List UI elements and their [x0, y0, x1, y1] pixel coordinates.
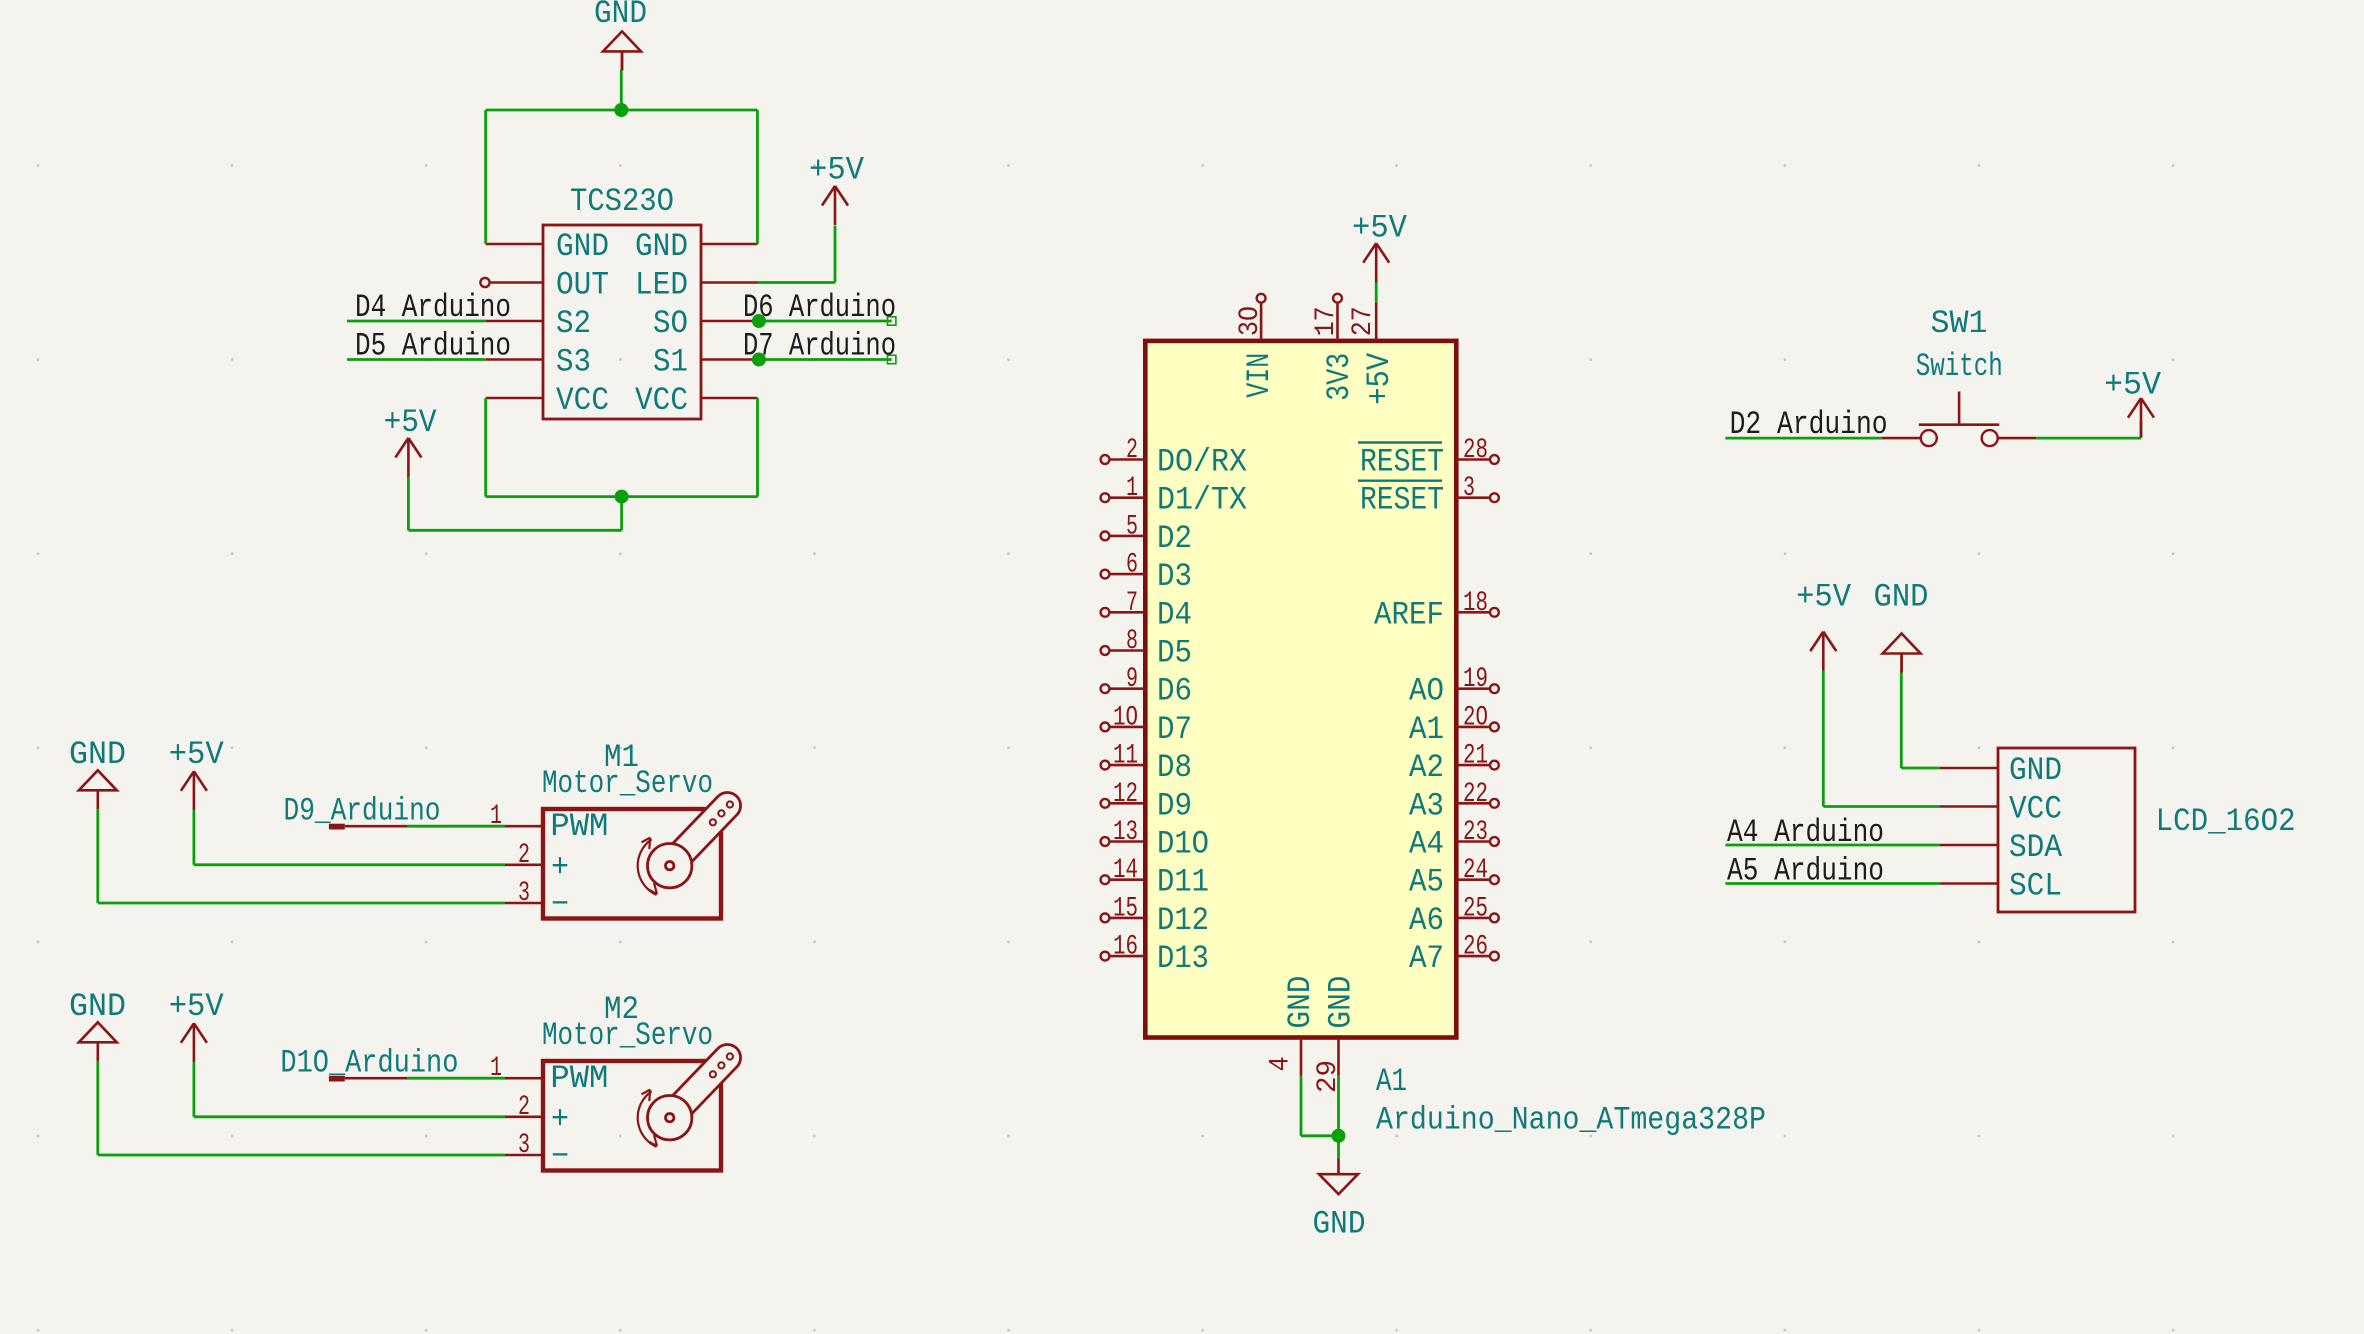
- pin 18 open circle: [1490, 608, 1499, 617]
- power +5V (LED): [822, 186, 848, 225]
- pin 17 3V3 stub: [1336, 303, 1339, 341]
- svg-text:16: 16: [1113, 932, 1138, 963]
- svg-text:3: 3: [518, 1130, 530, 1161]
- pin 13 open circle: [1101, 837, 1110, 846]
- display LCD_1602 body: [1998, 748, 2135, 912]
- svg-text:2: 2: [1126, 435, 1138, 466]
- pin VCC of LCD: [1939, 805, 1998, 808]
- svg-text:17: 17: [1311, 306, 1342, 336]
- pin 30 open circle: [1257, 294, 1266, 303]
- pin 29 GND stub: [1337, 1038, 1340, 1076]
- pin 2 of SW1: [1998, 437, 2036, 440]
- svg-text:3O: 3O: [1235, 306, 1266, 336]
- power +5V (M2): [181, 1023, 207, 1062]
- pin 23 open circle: [1490, 837, 1499, 846]
- pin OUT of TCS230: [490, 281, 544, 284]
- pin LED: [701, 281, 758, 284]
- pin 17 open circle: [1333, 294, 1342, 303]
- svg-text:+5V: +5V: [384, 404, 438, 441]
- svg-text:6: 6: [1126, 550, 1138, 581]
- svg-text:4: 4: [1266, 1056, 1297, 1071]
- svg-text:1O: 1O: [1113, 702, 1138, 733]
- svg-text:D5: D5: [1157, 635, 1192, 672]
- svg-text:D4: D4: [1157, 596, 1192, 633]
- wire D9_Arduino red part: [345, 825, 408, 828]
- pin S2: [486, 320, 543, 323]
- pin 1 (M2) stub: [505, 1077, 543, 1080]
- svg-text:LED: LED: [635, 267, 688, 304]
- svg-text:GND: GND: [1874, 578, 1929, 615]
- wire D9_Arduino green part: [407, 825, 505, 828]
- svg-text:VCC: VCC: [2009, 791, 2062, 828]
- svg-text:14: 14: [1113, 855, 1138, 886]
- pin 21 open circle: [1490, 761, 1499, 770]
- svg-text:VCC: VCC: [556, 382, 609, 419]
- svg-text:A6: A6: [1409, 902, 1444, 939]
- pin 11 D8 stub: [1110, 764, 1146, 767]
- wire GND top horizontal: [486, 109, 758, 112]
- wire VCC to +5V drop: [620, 497, 623, 531]
- pin 9 D6 stub: [1110, 687, 1146, 690]
- pin 6 open circle: [1101, 570, 1110, 579]
- pin 12 open circle: [1101, 799, 1110, 808]
- switch contact left: [1921, 430, 1937, 446]
- svg-text:PWM: PWM: [550, 1060, 608, 1097]
- wire +5V to pin 27: [1375, 281, 1378, 303]
- pin S3: [486, 358, 543, 361]
- pin 8 D5 stub: [1110, 649, 1146, 652]
- svg-text:A5: A5: [1409, 864, 1444, 901]
- pin 5 D2 stub: [1110, 535, 1146, 538]
- power GND (M2): [79, 1022, 117, 1061]
- svg-text:D9: D9: [1157, 787, 1192, 824]
- body M2: [543, 1061, 721, 1171]
- svg-text:SDA: SDA: [2009, 829, 2063, 866]
- pin 3 RESET stub: [1456, 496, 1490, 499]
- body M1: [543, 809, 721, 919]
- pin 26 A7 stub: [1456, 955, 1490, 958]
- rotation arrows (M2): [638, 1090, 657, 1147]
- wire D4 Arduino: [347, 320, 486, 323]
- power +5V (SW1): [2128, 398, 2154, 437]
- wire LED +5V vertical: [834, 226, 837, 283]
- svg-text:GND: GND: [2009, 752, 2062, 789]
- pin 3 open circle: [1490, 493, 1499, 502]
- pin S0: [701, 320, 758, 323]
- svg-text:D8: D8: [1157, 749, 1192, 786]
- svg-text:D1O_Arduino: D1O_Arduino: [280, 1044, 458, 1081]
- unconnected-pin circle OUT: [480, 278, 489, 287]
- svg-text:Motor_Servo: Motor_Servo: [542, 1017, 713, 1054]
- power +5V (LCD): [1810, 632, 1836, 671]
- svg-text:−: −: [551, 1138, 569, 1175]
- junction: [752, 314, 766, 328]
- svg-text:A4: A4: [1409, 826, 1444, 863]
- pin 6 D3 stub: [1110, 573, 1146, 576]
- pin 2 (M2) stub: [505, 1116, 543, 1119]
- svg-text:D3: D3: [1157, 558, 1192, 595]
- sensor TCS230 body: [543, 225, 701, 419]
- pin 13 D10 stub: [1110, 840, 1146, 843]
- svg-text:21: 21: [1463, 741, 1488, 772]
- wire D7 Arduino: [758, 358, 892, 361]
- wire GND pin4 down: [1300, 1076, 1303, 1136]
- svg-text:GND: GND: [1313, 1206, 1366, 1243]
- pin 4 GND stub: [1300, 1038, 1303, 1076]
- wire D10_Arduino red part: [345, 1077, 408, 1080]
- svg-text:+5V: +5V: [1361, 352, 1398, 405]
- pin 21 A2 stub: [1456, 764, 1490, 767]
- wire +5V vertical: [407, 477, 410, 530]
- wire +5V vertical (M2): [192, 1062, 195, 1117]
- svg-text:A7: A7: [1409, 940, 1444, 977]
- pin 24 open circle: [1490, 875, 1499, 884]
- switch contact right: [1982, 430, 1998, 446]
- pin 1 of SW1: [1882, 437, 1921, 440]
- pin GND-left of TCS230: [486, 243, 543, 246]
- pin 24 A5 stub: [1456, 878, 1490, 881]
- overline for RESET: [1358, 441, 1442, 443]
- svg-text:+: +: [551, 849, 569, 886]
- wire GND pin29 down: [1337, 1076, 1340, 1136]
- switch SW1 symbol: [1919, 423, 1999, 426]
- svg-text:S2: S2: [556, 305, 591, 342]
- wire D10_Arduino green part: [407, 1077, 505, 1080]
- wire A5 Arduino: [1725, 882, 1939, 885]
- svg-text:Motor_Servo: Motor_Servo: [542, 765, 713, 802]
- svg-text:A1: A1: [1376, 1063, 1407, 1100]
- wire VCC horizontal: [486, 495, 758, 498]
- svg-text:TCS23O: TCS23O: [570, 183, 674, 220]
- wire LCD VCC horizontal: [1823, 805, 1939, 808]
- wire VCC-right vertical: [756, 398, 759, 497]
- svg-text:LCD_16O2: LCD_16O2: [2156, 803, 2296, 840]
- svg-text:28: 28: [1463, 435, 1488, 466]
- wire SW1 to +5V: [2036, 437, 2141, 440]
- svg-text:RESET: RESET: [1360, 444, 1444, 481]
- pin 9 open circle: [1101, 684, 1110, 693]
- svg-text:2: 2: [518, 1092, 530, 1123]
- GND symbol pin (LCD): [1900, 654, 1903, 671]
- wire GND pin4 right: [1301, 1134, 1339, 1137]
- svg-text:D12: D12: [1157, 902, 1209, 939]
- pin 1 D1/TX stub: [1110, 496, 1146, 499]
- wire +5V horizontal: [408, 529, 621, 532]
- junction: [752, 353, 766, 367]
- pin 19 A0 stub: [1456, 687, 1490, 690]
- label anchor dash (D9_Arduino): [329, 824, 345, 830]
- svg-text:+: +: [551, 1101, 569, 1138]
- pin 5 open circle: [1101, 532, 1110, 541]
- svg-text:D6 Arduino: D6 Arduino: [743, 289, 896, 326]
- svg-text:D7: D7: [1157, 711, 1192, 748]
- wire GND vertical (M2): [96, 1061, 99, 1155]
- pin 14 open circle: [1101, 875, 1110, 884]
- power GND (nano): [1319, 1174, 1358, 1194]
- svg-text:PWM: PWM: [550, 808, 608, 845]
- pin 2 D0/RX stub: [1110, 458, 1146, 461]
- GND symbol pin (nano): [1337, 1159, 1340, 1175]
- svg-text:GND: GND: [1282, 976, 1319, 1029]
- pin 2 open circle: [1101, 455, 1110, 464]
- wire GND-right vertical: [756, 110, 759, 244]
- wire A4 Arduino: [1725, 844, 1939, 847]
- pin 20 A1 stub: [1456, 726, 1490, 729]
- svg-text:+5V: +5V: [169, 736, 225, 773]
- svg-text:D9_Arduino: D9_Arduino: [284, 792, 441, 829]
- svg-text:19: 19: [1463, 664, 1488, 695]
- svg-text:8: 8: [1126, 626, 1138, 657]
- svg-text:AREF: AREF: [1374, 596, 1444, 633]
- servo arm icon (M2): [648, 1044, 741, 1139]
- svg-text:S3: S3: [556, 344, 591, 381]
- svg-text:AO: AO: [1409, 673, 1444, 710]
- svg-text:RESET: RESET: [1360, 482, 1444, 519]
- MCU A1 Arduino_Nano_ATmega328P body: [1145, 341, 1456, 1038]
- pin 28 open circle: [1490, 455, 1499, 464]
- svg-text:D1/TX: D1/TX: [1157, 482, 1247, 519]
- svg-text:3: 3: [1463, 473, 1475, 504]
- junction: [1332, 1129, 1346, 1143]
- power +5V (nano): [1363, 243, 1389, 282]
- pin 25 open circle: [1490, 914, 1499, 923]
- svg-text:22: 22: [1463, 779, 1488, 810]
- wire LCD GND vertical: [1900, 671, 1903, 769]
- pin 15 D12 stub: [1110, 917, 1146, 920]
- svg-text:Arduino_Nano_ATmega328P: Arduino_Nano_ATmega328P: [1376, 1101, 1766, 1138]
- svg-text:D6: D6: [1157, 673, 1192, 710]
- svg-text:VCC: VCC: [635, 382, 688, 419]
- svg-text:GND: GND: [556, 228, 609, 265]
- svg-text:DO/RX: DO/RX: [1157, 444, 1247, 481]
- svg-text:13: 13: [1113, 817, 1138, 848]
- pin 1 (M1) stub: [505, 825, 543, 828]
- svg-text:A5 Arduino: A5 Arduino: [1727, 853, 1884, 890]
- svg-text:1: 1: [1126, 473, 1138, 504]
- wire GND-left vertical: [484, 110, 487, 244]
- svg-text:26: 26: [1463, 932, 1488, 963]
- pin 20 open circle: [1490, 723, 1499, 732]
- svg-text:A4 Arduino: A4 Arduino: [1727, 814, 1884, 851]
- pin 28 RESET stub: [1456, 458, 1490, 461]
- wire D6 Arduino: [758, 320, 892, 323]
- svg-text:3: 3: [518, 878, 530, 909]
- svg-text:GND: GND: [1323, 976, 1360, 1029]
- dangling end square S0: [888, 317, 896, 325]
- pin 23 A4 stub: [1456, 840, 1490, 843]
- wire to GND symbol: [1337, 1136, 1340, 1159]
- pin 30 VIN stub: [1260, 303, 1263, 341]
- pin 3 (M1) stub: [505, 902, 543, 905]
- pin 27 +5V stub: [1375, 303, 1378, 341]
- svg-text:27: 27: [1348, 306, 1379, 336]
- pin 26 open circle: [1490, 952, 1499, 961]
- pin 2 (M1) stub: [505, 863, 543, 866]
- pin VCC-left: [486, 397, 543, 400]
- servo arm icon (M1): [648, 792, 741, 887]
- svg-text:D7 Arduino: D7 Arduino: [743, 328, 896, 365]
- pin VCC-right: [701, 397, 758, 400]
- svg-text:D11: D11: [1157, 864, 1209, 901]
- svg-text:GND: GND: [594, 0, 647, 32]
- svg-text:+5V: +5V: [169, 988, 225, 1025]
- junction: [614, 103, 628, 117]
- svg-text:9: 9: [1126, 664, 1138, 695]
- wire GND vertical (M1): [96, 809, 99, 903]
- svg-text:OUT: OUT: [556, 267, 609, 304]
- wire VCC-left vertical: [484, 398, 487, 497]
- svg-text:S1: S1: [653, 344, 688, 381]
- pin 22 open circle: [1490, 799, 1499, 808]
- svg-text:−: −: [551, 886, 569, 923]
- svg-text:D13: D13: [1157, 940, 1209, 977]
- pin GND-right: [701, 243, 758, 246]
- svg-text:D4 Arduino: D4 Arduino: [355, 289, 511, 326]
- power +5V (TCS230 VCC): [395, 438, 421, 477]
- pin 15 open circle: [1101, 914, 1110, 923]
- svg-text:A1: A1: [1409, 711, 1444, 748]
- svg-text:GND: GND: [69, 736, 126, 773]
- wire +5V vertical (M1): [192, 810, 195, 865]
- wire GND to pin3 (M2): [98, 1154, 505, 1157]
- pin 12 D9 stub: [1110, 802, 1146, 805]
- power GND (top of TCS230): [603, 31, 641, 70]
- pin GND of LCD: [1939, 767, 1998, 770]
- svg-text:D5 Arduino: D5 Arduino: [355, 328, 511, 365]
- junction: [615, 490, 629, 504]
- pin 8 open circle: [1101, 646, 1110, 655]
- svg-text:7: 7: [1126, 588, 1138, 619]
- pin 22 A3 stub: [1456, 802, 1490, 805]
- svg-text:2O: 2O: [1463, 702, 1488, 733]
- dangling end square S1: [888, 355, 896, 363]
- wire LED to +5V corner: [758, 281, 836, 284]
- svg-text:5: 5: [1126, 511, 1138, 542]
- svg-text:A3: A3: [1409, 787, 1444, 824]
- svg-text:11: 11: [1113, 741, 1138, 772]
- svg-text:+5V: +5V: [1352, 209, 1408, 246]
- pin SCL of LCD: [1939, 882, 1998, 885]
- pin 16 D13 stub: [1110, 955, 1146, 958]
- pin 1 open circle: [1101, 493, 1110, 502]
- wire LCD VCC vertical: [1822, 671, 1825, 807]
- pin 7 open circle: [1101, 608, 1110, 617]
- wire +5V to pin2 (M2): [194, 1115, 505, 1118]
- pin 18 AREF stub: [1456, 611, 1490, 614]
- pin 7 D4 stub: [1110, 611, 1146, 614]
- svg-text:18: 18: [1463, 588, 1488, 619]
- svg-text:SCL: SCL: [2009, 868, 2062, 905]
- pin 19 open circle: [1490, 684, 1499, 693]
- svg-text:VIN: VIN: [1241, 353, 1278, 398]
- svg-text:12: 12: [1113, 779, 1138, 810]
- svg-text:2: 2: [518, 840, 530, 871]
- pin 16 open circle: [1101, 952, 1110, 961]
- label anchor dash (D10_Arduino): [329, 1076, 345, 1082]
- overline for RESET: [1358, 480, 1442, 482]
- pin SDA of LCD: [1939, 844, 1998, 847]
- svg-text:D2: D2: [1157, 520, 1192, 557]
- wire GND stem: [620, 70, 623, 111]
- pin 14 D11 stub: [1110, 878, 1146, 881]
- svg-text:3V3: 3V3: [1321, 353, 1358, 401]
- svg-text:GND: GND: [635, 228, 688, 265]
- wire +5V to pin2 (M1): [194, 863, 505, 866]
- svg-text:SW1: SW1: [1931, 305, 1988, 342]
- svg-text:SO: SO: [653, 305, 688, 342]
- svg-text:+5V: +5V: [2104, 367, 2162, 404]
- pin S1: [701, 358, 758, 361]
- svg-text:D2 Arduino: D2 Arduino: [1730, 406, 1888, 443]
- power GND (LCD): [1883, 634, 1921, 673]
- svg-text:Switch: Switch: [1916, 348, 2003, 385]
- rotation arrows (M1): [638, 838, 657, 895]
- pin 25 A6 stub: [1456, 917, 1490, 920]
- pin 11 open circle: [1101, 761, 1110, 770]
- wire GND to pin3 (M1): [98, 902, 505, 905]
- wire LCD GND horizontal: [1901, 767, 1939, 770]
- svg-text:+5V: +5V: [809, 152, 865, 189]
- svg-text:25: 25: [1463, 893, 1488, 924]
- svg-text:D1O: D1O: [1157, 826, 1209, 863]
- power +5V (M1): [181, 771, 207, 810]
- GND symbol pin: [621, 51, 624, 69]
- svg-text:23: 23: [1463, 817, 1488, 848]
- pin 3 (M2) stub: [505, 1154, 543, 1157]
- wire D2 Arduino: [1725, 437, 1882, 440]
- wire +5V vertical (SW1): [2140, 421, 2143, 439]
- power GND (M1): [79, 770, 117, 809]
- pin 10 open circle: [1101, 723, 1110, 732]
- svg-text:GND: GND: [69, 988, 126, 1025]
- svg-text:15: 15: [1113, 893, 1138, 924]
- wire D5 Arduino: [347, 358, 486, 361]
- svg-text:A2: A2: [1409, 749, 1444, 786]
- svg-text:+5V: +5V: [1796, 578, 1852, 615]
- pin 10 D7 stub: [1110, 726, 1146, 729]
- svg-text:24: 24: [1463, 855, 1488, 886]
